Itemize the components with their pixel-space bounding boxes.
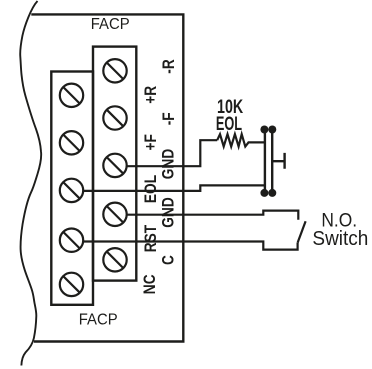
svg-text:FACP: FACP xyxy=(91,16,130,34)
screw terminal C (TB2-5) xyxy=(103,248,126,271)
terminal strip TB2 (inner/right) xyxy=(93,47,136,281)
junction dot pushbutton top-right xyxy=(268,126,276,134)
svg-text:NC: NC xyxy=(141,274,159,294)
resistor R1 10K EOL zigzag xyxy=(217,134,265,146)
screw terminal +F (TB1-2) xyxy=(60,131,83,154)
wire: GND terminal to N.O. switch fixed contact xyxy=(127,211,299,220)
pushbutton contact rails xyxy=(265,129,272,195)
screw terminal +R (TB1-1) xyxy=(60,84,83,107)
svg-text:RST: RST xyxy=(142,224,160,252)
svg-text:EOL: EOL xyxy=(142,175,160,203)
svg-text:FACP: FACP xyxy=(79,311,118,329)
svg-text:C: C xyxy=(159,255,177,265)
screw terminal RST (TB1-4) xyxy=(60,229,83,252)
svg-text:GND: GND xyxy=(159,149,177,179)
wire: RST terminal to N.O. switch blade xyxy=(83,242,297,250)
screw terminal GND2 (TB2-4) xyxy=(103,203,126,226)
FACP panel outline xyxy=(31,14,183,341)
N.O. switch blade xyxy=(298,221,306,243)
svg-text:Switch: Switch xyxy=(312,227,368,250)
panel break (torn left edge) xyxy=(20,1,41,366)
svg-text:EOL: EOL xyxy=(216,113,242,134)
terminal strip TB1 (outer/left) xyxy=(51,72,93,305)
junction dot pushbutton bottom-left xyxy=(260,189,268,197)
screw terminal GND (TB2-3) xyxy=(103,154,126,177)
svg-text:-F: -F xyxy=(160,112,178,125)
svg-text:GND: GND xyxy=(159,197,177,227)
svg-text:-R: -R xyxy=(160,59,178,73)
junction dot pushbutton bottom-right xyxy=(268,189,276,197)
junction dot pushbutton top-left xyxy=(260,126,268,134)
screw terminal -R (TB2-1) xyxy=(103,59,126,82)
wire: EOL terminal return to pushbutton rail xyxy=(83,185,265,191)
svg-text:+R: +R xyxy=(142,86,160,104)
pushbutton actuator xyxy=(272,153,284,169)
svg-text:+F: +F xyxy=(142,134,160,150)
screw terminal EOL (TB1-3) xyxy=(60,179,83,202)
screw terminal NC (TB1-5) xyxy=(60,273,83,296)
screw terminal -F (TB2-2) xyxy=(103,106,126,129)
wire: GND terminal to EOL resistor xyxy=(127,140,218,166)
